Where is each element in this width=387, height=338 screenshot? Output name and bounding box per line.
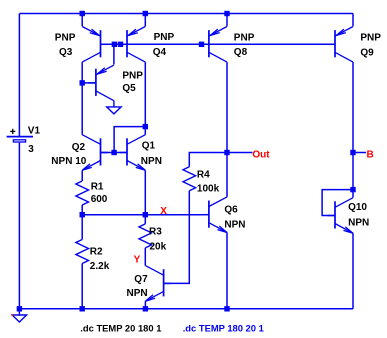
label Q9 <box>360 48 374 59</box>
spice directive .dc TEMP 180 20 1 <box>183 323 264 334</box>
wire Q2-Q1 base link <box>101 152 128 154</box>
ground (bottom left) <box>12 309 27 322</box>
svg-text:Q6: Q6 <box>224 205 238 216</box>
junction top rail / Q3 emitter <box>80 11 85 16</box>
label PNP Q9 <box>360 32 381 43</box>
wire base-collector tie riser <box>114 127 145 153</box>
svg-text:Q3: Q3 <box>59 47 73 58</box>
junction X node at R1/R2 <box>80 212 85 217</box>
wire top supply rail <box>19 13 353 15</box>
svg-text:PNP: PNP <box>154 32 175 43</box>
transistor Q4 (PNP) <box>120 27 146 63</box>
label R1 <box>91 181 104 192</box>
label V1 <box>28 125 41 136</box>
svg-text:600: 600 <box>91 194 108 205</box>
junction ground rail / R2 <box>80 306 85 311</box>
wire R1 to X node <box>81 205 83 215</box>
svg-text:Q7: Q7 <box>134 274 148 285</box>
value 100k <box>197 183 220 194</box>
wire Q5 emitter riser to base rail <box>113 44 115 64</box>
wire Q5 base <box>82 82 96 84</box>
transistor Q6 (NPN) <box>201 197 227 233</box>
wire Q6 emitter to ground rail <box>226 233 228 309</box>
label Q6 <box>224 205 238 216</box>
wire Q10 collector stub <box>352 190 354 198</box>
resistor R4 <box>183 167 196 191</box>
value NPN (Q1) <box>141 156 162 167</box>
value NPN (Q7) <box>127 288 148 299</box>
junction base rail / Q4 base pin <box>118 42 123 47</box>
junction Q5 base / collector column <box>80 80 85 85</box>
ground at Q5 collector <box>107 101 121 114</box>
svg-text:Out: Out <box>252 149 270 160</box>
net label X <box>160 206 167 217</box>
wire Q7 base to R4 bottom <box>164 191 190 284</box>
wire Q4 emitter riser <box>144 14 146 27</box>
label Q3 <box>59 47 73 58</box>
svg-text:Q9: Q9 <box>360 48 374 59</box>
svg-text:Q5: Q5 <box>122 83 136 94</box>
resistor R2 <box>76 240 89 264</box>
svg-text:PNP: PNP <box>122 71 143 82</box>
value 2.2k <box>90 261 110 272</box>
label PNP Q4 <box>154 32 175 43</box>
svg-text:Y: Y <box>134 255 141 266</box>
svg-text:Q2: Q2 <box>72 142 86 153</box>
junction Out node <box>224 150 229 155</box>
svg-text:NPN: NPN <box>348 218 369 229</box>
wire Q8 emitter riser <box>226 14 228 27</box>
value NPN 10 (Q2) <box>51 156 86 167</box>
wire Q9 emitter riser <box>352 14 354 27</box>
wire Q4 collector down to Q1 collector <box>144 62 146 135</box>
svg-text:.dc TEMP 20 180 1: .dc TEMP 20 180 1 <box>80 323 161 334</box>
svg-text:X: X <box>160 206 167 217</box>
resistor R3 <box>139 224 152 248</box>
junction ground rail / Q6 emitter <box>224 306 229 311</box>
wire B label stub <box>353 152 366 154</box>
transistor Q8 (PNP) <box>201 27 227 63</box>
svg-text:NPN: NPN <box>224 220 245 231</box>
wire Q3 collector to Q5 base to Q2 collector <box>81 62 83 135</box>
transistor Q9 (PNP) <box>328 27 354 63</box>
wire X net horizontal <box>82 214 201 216</box>
junction top rail / Q4 emitter <box>143 11 148 16</box>
wire R3 to Y node (Q7 collector) <box>144 248 146 266</box>
transistor Q3 (PNP mirrored) <box>82 27 108 63</box>
svg-text:Q1: Q1 <box>142 141 156 152</box>
junction ground rail / Q7 emitter <box>143 306 148 311</box>
svg-text:R1: R1 <box>91 181 104 192</box>
svg-text:Q10: Q10 <box>348 202 367 213</box>
label Q8 <box>234 47 248 58</box>
transistor Q2 (NPN mirrored) <box>82 135 108 171</box>
junction Q1-Q2 base riser <box>111 150 116 155</box>
wire Q3 emitter riser <box>81 14 83 27</box>
svg-text:Q8: Q8 <box>234 47 248 58</box>
label Q5 <box>122 83 136 94</box>
value NPN (Q10) <box>348 218 369 229</box>
label PNP Q3 <box>55 32 76 43</box>
svg-text:V1: V1 <box>28 125 41 136</box>
wire X node to R3 <box>144 215 146 224</box>
wire Q7 emitter to ground rail <box>144 301 146 309</box>
junction Q10 collector tie <box>350 187 355 192</box>
label Q1 <box>142 141 156 152</box>
svg-text:100k: 100k <box>197 183 220 194</box>
svg-text:Q4: Q4 <box>153 47 167 58</box>
wire Q8 collector to Out to Q6 collector <box>226 62 228 197</box>
svg-text:3: 3 <box>28 144 34 155</box>
label Q7 <box>134 274 148 285</box>
transistor Q7 (NPN mirrored) <box>145 266 171 302</box>
value NPN (Q6) <box>224 220 245 231</box>
wire Q9 collector down to B and Q10 <box>352 62 354 190</box>
svg-text:PNP: PNP <box>234 32 255 43</box>
wire Q10 collector tie loop <box>322 190 353 216</box>
value 20k <box>150 242 167 253</box>
net label Out <box>252 149 270 160</box>
label Q2 <box>72 142 86 153</box>
label Q4 <box>153 47 167 58</box>
junction ground rail left / gnd <box>17 306 22 311</box>
label PNP Q8 <box>234 32 255 43</box>
svg-text:B: B <box>367 149 374 160</box>
label R4 <box>197 169 210 180</box>
resistor R1 <box>76 181 89 205</box>
junction base rail / Q8 base pin <box>199 42 204 47</box>
value 600 <box>91 194 108 205</box>
label R3 <box>149 227 162 238</box>
wire left rail lower (battery to ground rail) <box>18 143 20 309</box>
svg-text:R4: R4 <box>197 169 210 180</box>
label Q10 <box>348 202 367 213</box>
svg-text:PNP: PNP <box>360 32 381 43</box>
transistor Q5 (PNP) <box>88 65 114 101</box>
svg-text:PNP: PNP <box>55 32 76 43</box>
wire common base rail Q3-Q4-Q8-Q9 <box>101 43 336 45</box>
wire X node to R2 <box>81 215 83 240</box>
wire R4 top to Out rail <box>189 153 252 167</box>
junction B node <box>350 150 355 155</box>
net label Y <box>134 255 141 266</box>
svg-text:.dc TEMP 180 20 1: .dc TEMP 180 20 1 <box>183 323 264 334</box>
junction top rail / Q8 emitter <box>224 11 229 16</box>
wire R2 to ground rail <box>81 264 83 309</box>
svg-text:2.2k: 2.2k <box>90 261 110 272</box>
wire Q2 emitter to R1 <box>81 170 83 181</box>
spice directive .dc TEMP 20 180 1 <box>80 323 161 334</box>
wire left rail upper (V+ to battery) <box>18 14 20 137</box>
transistor Q10 (NPN) <box>328 198 354 234</box>
label R2 <box>90 247 103 258</box>
junction X node at Q1 emitter/R3 <box>143 212 148 217</box>
voltage source V1 battery symbol <box>7 129 33 142</box>
junction Q1 collector tie <box>143 124 148 129</box>
transistor Q1 (NPN) <box>120 135 146 171</box>
svg-text:R2: R2 <box>90 247 103 258</box>
value 3 <box>28 144 34 155</box>
svg-text:20k: 20k <box>150 242 167 253</box>
junction base rail / Q5 emitter <box>112 42 117 47</box>
wire Q10 emitter to ground rail <box>352 233 354 308</box>
wire Q1 emitter to X node <box>144 170 146 214</box>
svg-text:NPN 10: NPN 10 <box>51 156 86 167</box>
svg-text:NPN: NPN <box>141 156 162 167</box>
net label B <box>367 149 374 160</box>
svg-text:R3: R3 <box>149 227 162 238</box>
wire bottom ground rail <box>19 308 353 310</box>
label PNP Q5 <box>122 71 143 82</box>
svg-text:NPN: NPN <box>127 288 148 299</box>
